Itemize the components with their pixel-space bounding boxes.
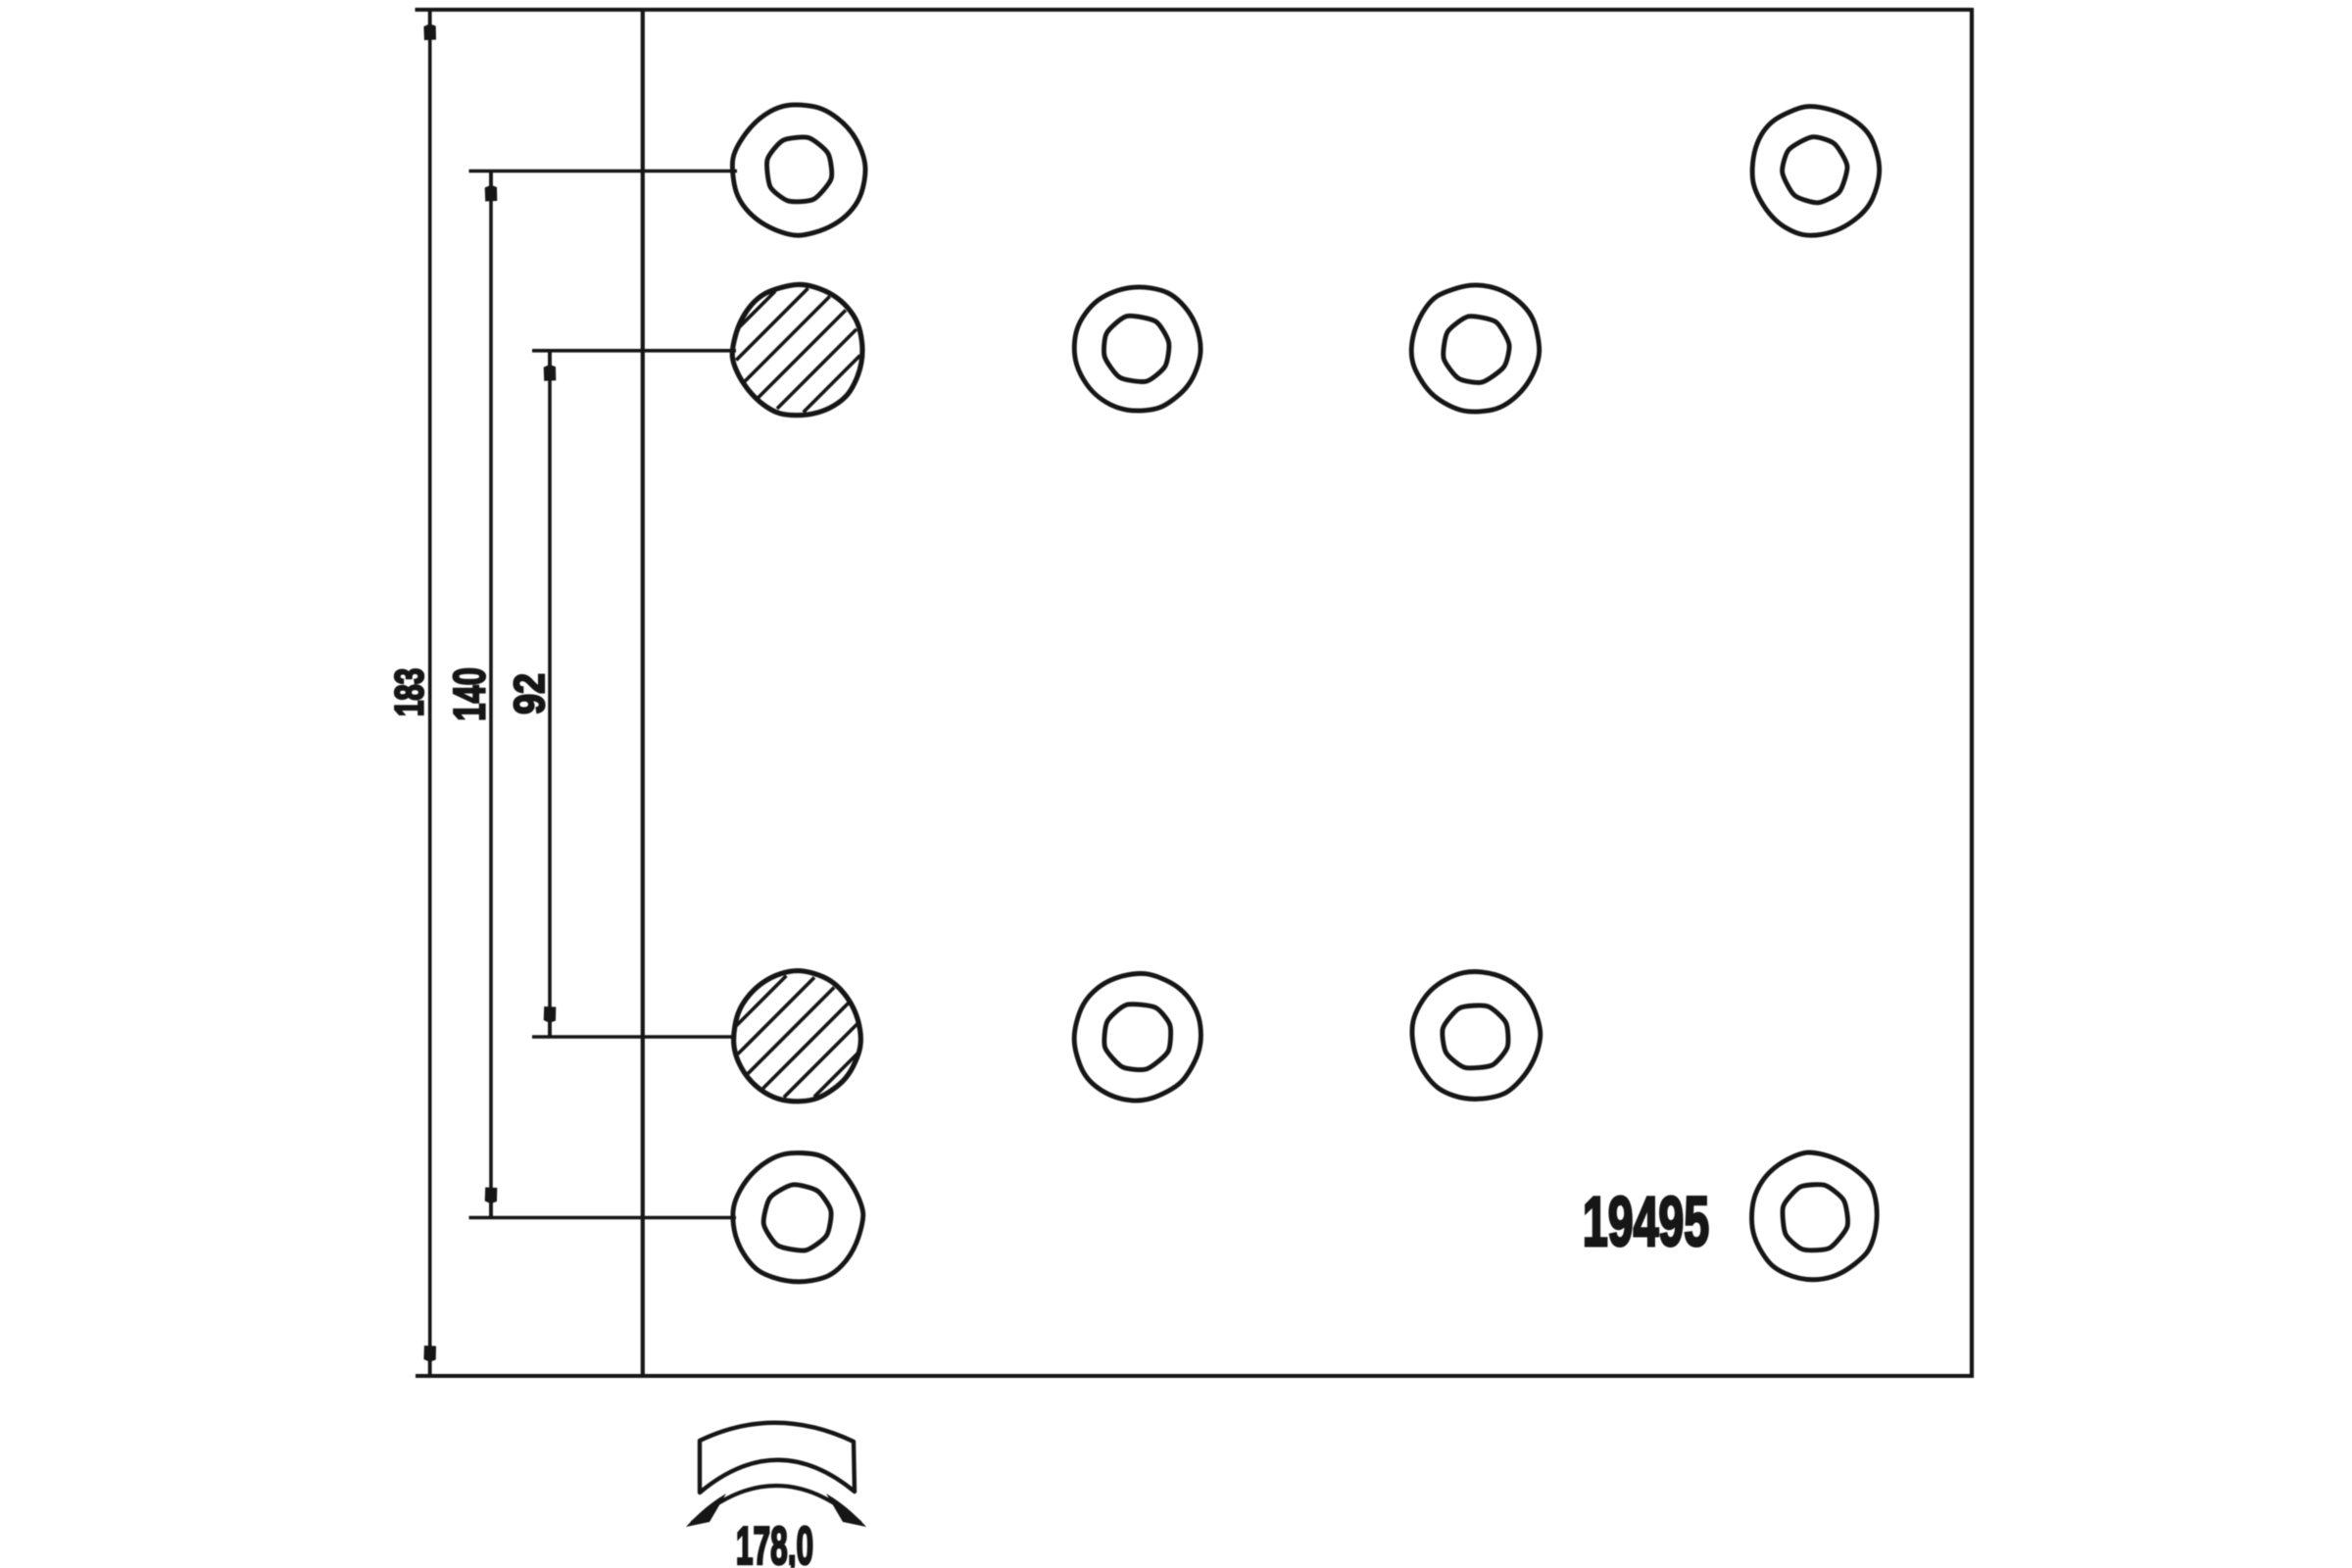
rivet hole H2 row1-col4 — [1752, 107, 1880, 236]
brake-lining plate left edge — [641, 8, 645, 1378]
dimension line 92 — [548, 351, 552, 1037]
svg-text:178,0: 178,0 — [736, 1515, 813, 1568]
dimension line 140 — [489, 171, 493, 1218]
arrowhead 140 top — [485, 172, 498, 202]
arrowhead 92 bottom — [544, 1006, 557, 1036]
svg-text:183: 183 — [387, 668, 432, 716]
arrowhead 140 bottom — [485, 1188, 498, 1217]
arrowhead 92 top — [544, 352, 557, 381]
rivet hole H9 row4-col1 — [733, 1152, 863, 1281]
rivet hole H1 row1-col1 — [732, 105, 865, 235]
arc arrowhead left — [686, 1494, 726, 1527]
extension line 140 top (row-1 leader) — [469, 170, 738, 173]
arrowhead 183 top — [423, 12, 436, 41]
lining cross-section curved band — [700, 1423, 855, 1493]
rivet hole H4 row2-col2 — [1074, 287, 1200, 411]
svg-text:140: 140 — [445, 667, 494, 721]
brake-lining plate top edge + extension line — [416, 8, 1974, 12]
rivet hole H5 row2-col3 — [1411, 285, 1539, 412]
brake-lining plate right edge — [1970, 8, 1974, 1378]
svg-text:92: 92 — [505, 673, 553, 714]
dimension line 183 (overall height) — [428, 10, 432, 1376]
filled rivet hole H6 row3-col1 (hatched) — [734, 971, 861, 1102]
extension line 92 top (row-2 leader) — [532, 349, 736, 353]
svg-text:19495: 19495 — [1583, 1183, 1709, 1260]
brake-lining plate bottom edge + extension line — [416, 1374, 1974, 1378]
arc arrowhead right — [826, 1494, 866, 1527]
arrowhead 183 bottom — [423, 1346, 436, 1375]
filled rivet hole H3 row2-col1 (hatched) — [732, 284, 862, 415]
extension line 140 bottom (row-4 leader) — [469, 1216, 737, 1220]
rivet hole H7 row3-col2 — [1074, 973, 1200, 1101]
extension line 92 bottom (row-3 leader) — [532, 1035, 736, 1039]
width dimension arc 178.0 — [692, 1486, 860, 1523]
rivet hole H8 row3-col3 — [1412, 971, 1541, 1099]
rivet hole H10 row4-col4 — [1751, 1152, 1877, 1280]
